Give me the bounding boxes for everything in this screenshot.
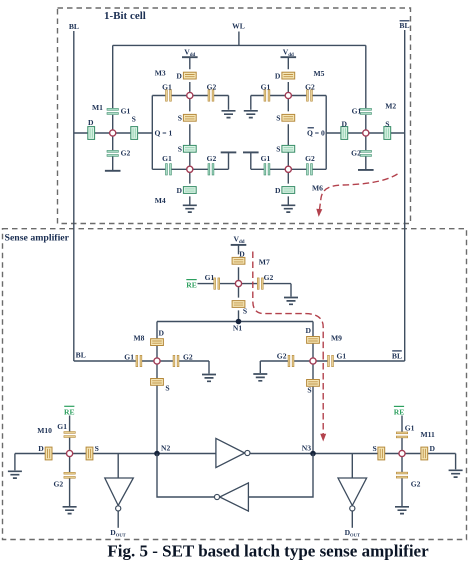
svg-text:1-Bit cell: 1-Bit cell [104, 10, 146, 22]
node N1 dot [236, 319, 242, 325]
wire M10 vertical [69, 416, 71, 507]
capacitor M9 G1 [328, 355, 334, 366]
buffer right triangle [338, 478, 367, 506]
capacitor M3 G1 [166, 90, 172, 101]
transistor M10 (SET, left enable) [8, 406, 99, 513]
wire M9 gate row [260, 361, 404, 373]
svg-text:D: D [342, 119, 348, 128]
junction M2 S [384, 127, 391, 140]
svg-text:D: D [159, 328, 165, 337]
terminal M6 G1 T-bar [243, 151, 259, 153]
wire BL vertical line [73, 31, 75, 361]
wire M10 D to ground [14, 454, 16, 471]
terminal M4 G2 T-bar [221, 151, 237, 153]
wire N1 rail [157, 321, 313, 323]
1-Bit cell dashed box [58, 8, 411, 224]
label RE overline M11 [394, 405, 404, 407]
svg-text:S: S [276, 145, 280, 154]
svg-text:S: S [178, 114, 182, 123]
junction M11 D [421, 447, 428, 460]
Sense amplifier dashed box [3, 229, 467, 540]
svg-text:Q = 0: Q = 0 [307, 129, 325, 138]
junction M4 D [183, 187, 196, 194]
svg-text:D: D [38, 444, 44, 453]
svg-text:Fig. 5 - SET based latch type: Fig. 5 - SET based latch type sense ampl… [107, 542, 429, 561]
svg-text:M1: M1 [92, 103, 103, 112]
svg-text:WL: WL [232, 21, 245, 30]
node M1 center [110, 130, 116, 136]
capacitor M6 G1 [264, 164, 270, 175]
svg-text:S: S [243, 306, 247, 315]
svg-text:S: S [95, 444, 99, 453]
wire M4 gate row [152, 152, 228, 169]
svg-text:RE: RE [186, 280, 197, 289]
capacitor M10 G2 [64, 472, 75, 478]
wire M5 gate row [251, 96, 326, 110]
inverter top (N2 to N3) [216, 438, 250, 467]
svg-text:M9: M9 [331, 334, 342, 343]
transistor M8 (SET, left branch) [74, 322, 216, 454]
terminal M1 G2 T-bar [105, 170, 121, 172]
wire N2-N3 rail right [250, 453, 456, 455]
svg-text:G1: G1 [162, 82, 172, 91]
svg-text:G2: G2 [305, 154, 315, 163]
wire M11 vertical [401, 416, 403, 507]
svg-text:M10: M10 [37, 426, 52, 435]
ground M11 G2 [395, 507, 409, 514]
svg-text:G2: G2 [183, 353, 193, 362]
svg-text:G2: G2 [264, 273, 274, 282]
junction M3 S [183, 114, 196, 121]
capacitor M3 G2 [208, 90, 214, 101]
capacitor M11 G2 [396, 472, 407, 478]
junction M7 D [232, 257, 245, 264]
svg-text:M6: M6 [312, 184, 323, 193]
capacitor M1 G2 [107, 150, 118, 156]
junction M10 D [45, 447, 52, 460]
junction M3 D [183, 72, 196, 79]
junction M7 S [232, 301, 245, 308]
svg-text:D: D [306, 326, 312, 335]
ground M10 G2 [63, 507, 77, 514]
wire left buffer stem [117, 454, 119, 479]
svg-text:G1: G1 [352, 106, 362, 115]
node N3 dot [310, 451, 316, 457]
junction M10 S [86, 447, 93, 460]
capacitor M6 G2 [307, 164, 313, 175]
capacitor M5 G2 [307, 90, 313, 101]
buffer left bubble [116, 506, 121, 511]
wire M5 vertical [287, 57, 289, 145]
wire M7 gate row [198, 284, 292, 297]
wire M4 vertical [189, 152, 191, 204]
wire right buffer stem [351, 454, 353, 479]
label RE overline M10 [64, 405, 74, 407]
svg-text:M4: M4 [155, 196, 166, 205]
ground M4 D [183, 205, 197, 212]
buffer right bubble [350, 506, 355, 511]
svg-text:S: S [307, 386, 311, 395]
buffer left output [105, 454, 134, 538]
node M10 center [67, 450, 73, 456]
junction M6 S [282, 145, 295, 152]
svg-text:G2: G2 [207, 82, 217, 91]
svg-text:D: D [177, 186, 183, 195]
label RE overline M7 [186, 279, 196, 281]
wire left buffer out [117, 511, 119, 528]
transistor M1 (access SET, left) [74, 45, 153, 170]
svg-text:BL: BL [76, 350, 86, 359]
buffer right output [338, 454, 367, 538]
capacitor M1 G1 [107, 108, 118, 114]
ground M3 G2 [222, 111, 236, 118]
wire WL horizontal line [113, 44, 366, 46]
annotation red dashed path sense amp [253, 252, 323, 435]
junction M5 D [282, 72, 295, 79]
node M2 center [363, 130, 369, 136]
wire M6 vertical [287, 152, 289, 204]
junction M9 D [307, 337, 320, 344]
transistor M2 (access SET, right) [326, 45, 405, 169]
capacitor M2 G2 [360, 150, 371, 156]
ground M6 D [281, 205, 295, 212]
node Q wire [151, 96, 153, 170]
junction M6 D [282, 187, 295, 194]
svg-text:M2: M2 [385, 102, 396, 111]
wire M2 horizontal D-S arm [326, 132, 405, 134]
junction M5 S [282, 114, 295, 121]
svg-text:D: D [88, 118, 94, 127]
wire M8 gate row [74, 361, 209, 374]
wire M7 vertical [238, 245, 240, 322]
capacitor M7 G2 [257, 278, 263, 289]
capacitor M11 G1 [396, 432, 407, 438]
node M11 center [399, 450, 405, 456]
svg-text:G2: G2 [121, 149, 131, 158]
transistor M6 (n-type SET, right inverter bottom) [243, 145, 326, 213]
junction M8 D [151, 339, 164, 346]
wire right buffer out [351, 511, 353, 528]
svg-text:G2: G2 [207, 154, 217, 163]
ground M5 G1 [244, 111, 258, 118]
node M4 center [187, 166, 193, 172]
transistor M5 (p-type SET, right inverter top) [244, 47, 326, 145]
wire N2-N3 rail left [15, 453, 216, 455]
junction M1 S [131, 127, 138, 140]
annotation red arrowhead cell [316, 209, 322, 217]
ground M11 D [449, 470, 463, 477]
node M6 center [285, 166, 291, 172]
capacitor M8 G1 [136, 355, 142, 366]
wire M3 vertical [189, 57, 191, 145]
svg-text:N1: N1 [233, 324, 242, 333]
inverter top bubble [245, 450, 250, 455]
capacitor M5 G1 [264, 90, 270, 101]
svg-text:D: D [275, 186, 281, 195]
label BLbar overline sense [392, 350, 402, 352]
ground M10 D [8, 471, 22, 478]
annotation red dashed arrow in cell [320, 174, 398, 210]
wire M1 horizontal D-S arm [74, 132, 153, 134]
wire M8 vertical [156, 322, 158, 454]
svg-text:Q = 1: Q = 1 [155, 129, 173, 138]
svg-text:D: D [239, 250, 245, 259]
svg-text:G1: G1 [261, 154, 271, 163]
label Qbar overline [308, 127, 314, 129]
svg-text:M11: M11 [421, 430, 436, 439]
power Vdd M3 bar [182, 56, 198, 58]
junction M1 D [88, 127, 95, 140]
wire M6 gate row [251, 152, 326, 169]
svg-text:G2: G2 [351, 149, 361, 158]
svg-text:G1: G1 [337, 351, 347, 360]
svg-text:G1: G1 [162, 154, 172, 163]
svg-text:RE: RE [64, 407, 75, 416]
node Qbar wire [325, 96, 327, 170]
capacitor M7 G1 [214, 278, 220, 289]
svg-text:G2: G2 [277, 351, 287, 360]
svg-text:S: S [385, 119, 389, 128]
wire M2 G1 vertical to WL [365, 45, 367, 169]
svg-text:N3: N3 [302, 443, 311, 452]
capacitor M2 G1 [360, 108, 371, 114]
wire M1 G1 vertical to WL [112, 45, 114, 170]
junction M9 S [307, 380, 320, 387]
junction M11 S [378, 447, 385, 460]
node M8 center [154, 358, 160, 364]
node BLbar overline [400, 20, 410, 22]
svg-text:G1: G1 [405, 424, 415, 433]
terminal M2 G2 T-bar [358, 169, 374, 171]
svg-text:D: D [275, 71, 281, 80]
svg-text:D: D [176, 71, 182, 80]
node M7 center [235, 281, 241, 287]
ground M7 G2 [284, 298, 298, 305]
inverter bottom bubble [214, 494, 219, 499]
node M5 center [285, 92, 291, 98]
power Vdd M5 bar [281, 56, 297, 58]
capacitor M9 G2 [288, 355, 294, 366]
capacitor M8 G2 [173, 355, 179, 366]
capacitor M4 G1 [166, 164, 172, 175]
svg-text:S: S [165, 384, 169, 393]
capacitor M4 G2 [208, 164, 214, 175]
ground M8 G2 [202, 375, 216, 382]
svg-text:S: S [276, 114, 280, 123]
node M9 center [310, 358, 316, 364]
svg-text:N2: N2 [161, 443, 170, 452]
wire bottom inverter output to N2 [157, 454, 214, 498]
node M3 center [187, 92, 193, 98]
svg-text:G1: G1 [57, 422, 67, 431]
transistor M7 (SET, sense amp top) [186, 234, 298, 321]
svg-text:BL: BL [69, 22, 79, 31]
buffer left triangle [105, 478, 134, 506]
svg-text:RE: RE [394, 407, 405, 416]
junction M2 D [341, 127, 348, 140]
wire M9 vertical [312, 322, 314, 454]
inverter bottom (N3 to N2) [157, 454, 313, 512]
svg-text:M3: M3 [155, 69, 166, 78]
capacitor M10 G1 [64, 432, 75, 438]
power Vdd M7 bar [231, 244, 247, 246]
inverter top triangle [216, 438, 245, 467]
wire M3 gate row [152, 96, 228, 110]
svg-text:Sense amplifier: Sense amplifier [5, 233, 70, 244]
wire N3 down to bottom inverter [248, 454, 313, 498]
junction M8 S [151, 379, 164, 386]
svg-text:G1: G1 [121, 106, 131, 115]
svg-text:BL: BL [399, 21, 409, 30]
transistor M4 (n-type SET, left inverter bottom) [152, 145, 236, 213]
transistor M9 (SET, right branch) [253, 322, 404, 454]
svg-text:G2: G2 [305, 82, 315, 91]
svg-text:M8: M8 [134, 333, 145, 342]
annotation red arrowhead sense amp [320, 434, 326, 442]
svg-text:G1: G1 [261, 82, 271, 91]
wire M11 D to ground [455, 454, 457, 470]
svg-text:G1: G1 [124, 353, 134, 362]
svg-text:S: S [132, 115, 136, 124]
svg-text:M5: M5 [314, 69, 325, 78]
svg-text:D: D [430, 444, 436, 453]
transistor M11 (SET, right enable) [372, 406, 462, 513]
svg-text:M7: M7 [259, 257, 270, 266]
svg-text:G1: G1 [205, 273, 215, 282]
svg-text:S: S [372, 444, 376, 453]
svg-text:BL: BL [392, 351, 402, 360]
ground M9 G2 [253, 374, 267, 381]
inverter bottom triangle [220, 483, 249, 511]
svg-text:G2: G2 [411, 480, 421, 489]
node N2 dot [154, 451, 160, 457]
junction M4 S [183, 145, 196, 152]
wire WL stub [238, 32, 240, 46]
wire BLbar vertical line [404, 30, 406, 361]
svg-text:S: S [178, 145, 182, 154]
svg-text:G2: G2 [53, 480, 63, 489]
transistor M3 (p-type SET, left inverter top) [152, 47, 235, 145]
